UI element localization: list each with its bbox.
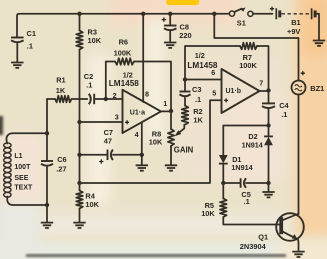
resistor R1: [55, 96, 72, 103]
resistor R2: [182, 106, 189, 125]
svg-text:C6: C6: [57, 155, 66, 164]
node bias/R4: [77, 181, 81, 185]
wire: [94, 98, 122, 100]
wire U1-b output: [260, 90, 269, 92]
capacitor C4: [268, 91, 270, 104]
svg-text:1/2: 1/2: [195, 51, 205, 60]
svg-text:SEE: SEE: [14, 175, 28, 182]
svg-text:10K: 10K: [85, 200, 99, 209]
node C4/D1/D2: [266, 123, 270, 127]
svg-text:100K: 100K: [114, 49, 132, 58]
wire V+ top rail: [17, 14, 214, 38]
node output/R8: [169, 109, 173, 113]
svg-text:2: 2: [113, 91, 117, 100]
diode D2 1N914: [268, 126, 270, 137]
wire C6 branch: [46, 99, 48, 161]
ground (C1): [11, 63, 23, 68]
node pin6/C3/R7: [183, 77, 187, 81]
wire: [257, 46, 269, 91]
op-amp U1-a: [123, 90, 162, 133]
buzzer BZ1: [301, 71, 305, 75]
svg-text:3: 3: [115, 113, 119, 122]
svg-text:.1: .1: [281, 110, 287, 119]
wire input node: [47, 98, 55, 100]
wire pin 3: [80, 121, 123, 123]
svg-text:10K: 10K: [149, 138, 163, 147]
svg-text:S1: S1: [237, 18, 246, 27]
node bias/pin3: [77, 120, 81, 124]
ground (R4): [73, 223, 85, 228]
R8 wiper arrow: [179, 125, 184, 133]
node pin4/C7/gnd: [140, 153, 144, 157]
node pin2/C2/R6: [104, 97, 108, 101]
svg-text:1K: 1K: [193, 115, 203, 124]
svg-text:C1: C1: [27, 29, 36, 38]
wire: [72, 98, 88, 100]
transistor Q1 2N3904: [276, 213, 304, 241]
wire: [317, 14, 320, 40]
switch S1: [229, 11, 234, 16]
highlight bar (scan artifact): [166, 0, 199, 5]
node output/C4: [266, 88, 270, 92]
svg-text:LM1458: LM1458: [109, 79, 139, 88]
node top-rail/S1 branch: [212, 12, 216, 16]
node C5/D2/gnd: [266, 181, 270, 185]
potentiometer R8 GAIN: [170, 111, 172, 129]
ground (B1): [313, 41, 325, 46]
svg-text:LM1458: LM1458: [187, 61, 217, 70]
svg-text:.1: .1: [27, 41, 33, 50]
ground (detector): [262, 192, 274, 197]
svg-text:.1: .1: [195, 95, 201, 104]
svg-text:L1: L1: [14, 153, 22, 160]
resistor R7: [240, 43, 257, 50]
svg-text:C3: C3: [192, 85, 201, 94]
ground (L1/C6): [41, 223, 53, 228]
svg-text:5: 5: [212, 88, 216, 97]
svg-text:R6: R6: [119, 37, 128, 46]
node top-rail/R3: [77, 12, 81, 16]
svg-text:220: 220: [179, 31, 191, 40]
svg-text:47: 47: [104, 137, 112, 146]
svg-text:1/2: 1/2: [123, 70, 133, 79]
svg-text:8: 8: [145, 90, 149, 99]
ground (pin 4): [136, 165, 148, 170]
wire: [134, 62, 171, 112]
capacitor C5: [223, 182, 240, 184]
wire pin 8: [142, 14, 144, 102]
svg-text:1K: 1K: [56, 86, 66, 95]
svg-text:+9V: +9V: [287, 27, 300, 36]
svg-text:7: 7: [259, 79, 263, 88]
wire U1-a output: [161, 110, 171, 112]
svg-text:1N914: 1N914: [231, 163, 252, 172]
svg-text:.1: .1: [86, 80, 92, 89]
svg-text:4: 4: [135, 130, 139, 139]
svg-text:C4: C4: [279, 101, 289, 110]
svg-text:GAIN: GAIN: [174, 145, 194, 154]
wire V+ to buzzer: [214, 14, 298, 81]
node top-rail/C8: [168, 12, 172, 16]
svg-text:U1·b: U1·b: [226, 88, 242, 95]
svg-text:TEXT: TEXT: [14, 184, 33, 191]
svg-text:10K: 10K: [201, 209, 215, 218]
op-amp U1-b: [222, 69, 260, 113]
battery B1: [270, 7, 274, 11]
wire detector node: [223, 126, 268, 156]
svg-text:10K: 10K: [88, 36, 102, 45]
svg-text:Q1: Q1: [258, 233, 268, 242]
svg-text:BZ1: BZ1: [310, 84, 324, 93]
wire pin 4: [141, 123, 143, 166]
ground (Q1 emitter): [292, 252, 304, 257]
capacitor C3: [184, 80, 186, 92]
node top-rail/pin8: [141, 12, 145, 16]
capacitor C6: [41, 160, 53, 162]
resistor R4: [76, 191, 83, 209]
svg-text:U1·a: U1·a: [130, 109, 145, 116]
diode D1 1N914: [219, 155, 228, 163]
wire: [253, 13, 273, 15]
wire U1-a feedback loop: [106, 62, 115, 100]
resistor R6: [115, 58, 134, 65]
wire R3 to bias nodes: [79, 50, 81, 191]
ground (C8): [164, 43, 176, 48]
resistor R5: [222, 183, 224, 199]
capacitor C2: [89, 94, 91, 105]
svg-text:R1: R1: [56, 76, 65, 85]
wire U1-b feedback loop: [185, 46, 240, 80]
wire: [214, 13, 229, 15]
node L1/C6 top: [45, 131, 49, 135]
svg-text:.27: .27: [56, 164, 66, 173]
wire to Q1 base: [223, 217, 280, 225]
resistor R3: [76, 31, 83, 50]
wire: [79, 14, 81, 31]
svg-text:100T: 100T: [14, 164, 31, 171]
wire pin 5 bias: [80, 100, 222, 183]
wire L1 top: [6, 133, 47, 143]
svg-text:1: 1: [163, 99, 167, 108]
capacitor C7: [80, 154, 108, 156]
svg-text:2N3904: 2N3904: [240, 242, 267, 251]
ground (R8): [165, 165, 177, 170]
node D1/C5/R5: [221, 181, 225, 185]
svg-text:.1: .1: [244, 197, 250, 206]
node bias/C7: [77, 153, 81, 157]
node L1/C6 bottom: [45, 203, 49, 207]
wire L1 bottom: [7, 197, 47, 206]
wire pin 6: [185, 79, 222, 81]
svg-text:100K: 100K: [239, 61, 257, 70]
capacitor C8: [169, 14, 171, 25]
svg-text:1N914: 1N914: [242, 141, 263, 150]
capacitor C1: [11, 37, 23, 39]
inductor L1: [4, 143, 11, 148]
wire buzzer to Q1 collector: [298, 95, 300, 215]
